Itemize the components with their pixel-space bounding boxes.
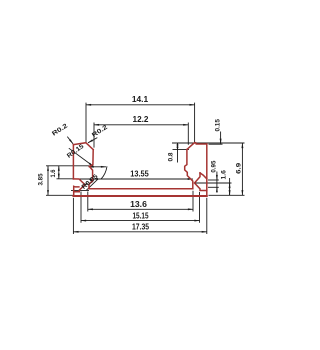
- svg-text:13.6: 13.6: [130, 200, 148, 209]
- extension 12.2 right: [187, 123, 189, 145]
- dimension texts: [130, 95, 149, 232]
- dim 3.85 line: [47, 166, 49, 196]
- extension 15.15 left: [80, 192, 82, 223]
- extension 13.6 right: [192, 191, 194, 212]
- leader R0.05 main: [86, 179, 98, 191]
- extension 17.35 left: [72, 198, 74, 234]
- extension left bottom: [46, 194, 73, 196]
- wire right outer wall: [206, 144, 208, 196]
- wire left inner wall with notch: [89, 150, 93, 189]
- dim 0.8 arrows: [177, 143, 179, 147]
- dim 13.55 line: [73, 178, 192, 180]
- wire right internal barb slot: [195, 173, 207, 191]
- dim 14.1 line: [86, 104, 195, 106]
- leader R0.2 left: [67, 137, 73, 144]
- extension bottom right shared: [209, 194, 245, 196]
- leader double arrow line: [89, 166, 106, 168]
- leader R0.05 arrow 2: [83, 184, 87, 187]
- dim 13.55 left arrow: [93, 178, 96, 180]
- svg-text:12.2: 12.2: [133, 115, 150, 124]
- profile outline: [73, 143, 206, 196]
- svg-text:0.15: 0.15: [215, 119, 222, 132]
- leader R0.15: [69, 148, 94, 166]
- svg-text:R0.15: R0.15: [66, 143, 86, 160]
- svg-text:6.9: 6.9: [235, 162, 242, 174]
- leader R0.2 right: [88, 138, 97, 143]
- wire right inner wall with notch: [185, 150, 193, 189]
- extension 13.6 left: [87, 192, 89, 212]
- dim 13.6 line: [88, 208, 193, 210]
- misc short line bottom left: [71, 189, 89, 191]
- wire top-left lip: [73, 143, 93, 150]
- dim 1.6 right line: [229, 178, 231, 195]
- extension 1.6 right top: [196, 182, 232, 184]
- svg-text:3.85: 3.85: [38, 173, 45, 185]
- extension 0.95 bottom: [208, 186, 219, 188]
- wire right slot top connection: [200, 173, 207, 179]
- svg-text:15.15: 15.15: [133, 212, 150, 221]
- svg-text:1.6: 1.6: [221, 170, 228, 180]
- extension 0.95 top: [208, 179, 219, 181]
- wire right lip with ridge: [187, 143, 207, 150]
- svg-text:R0.2: R0.2: [91, 124, 110, 139]
- dim 0.15 line: [220, 132, 222, 144]
- dim 1.6 left line: [58, 166, 60, 179]
- wire left slot hook: [74, 186, 79, 196]
- extension 12.2 left: [93, 123, 95, 148]
- extension left top: [46, 165, 89, 167]
- dim 6.9 line: [241, 143, 243, 195]
- extension 14.1 right: [194, 103, 196, 144]
- wire bottom edge of flange: [73, 195, 206, 197]
- dim 15.15 line: [81, 220, 200, 222]
- dim 0.95 line: [216, 172, 218, 191]
- extension 14.1 left: [85, 103, 87, 143]
- dim 17.35 line: [73, 231, 206, 233]
- extension 15.15 right: [199, 192, 201, 223]
- svg-text:0.8: 0.8: [168, 152, 175, 161]
- svg-text:0.95: 0.95: [211, 160, 218, 172]
- extension 0.8 bottom: [173, 148, 190, 150]
- extension 0.15 bottom: [209, 143, 223, 145]
- extension left mid: [57, 178, 74, 180]
- dim 12.2 line: [94, 124, 188, 126]
- wire left lower jog and slot: [73, 179, 85, 192]
- svg-text:13.55: 13.55: [130, 169, 149, 178]
- svg-text:14.1: 14.1: [132, 95, 149, 104]
- leader arc detail: [101, 166, 107, 179]
- leader R0.05 arrow 1: [89, 179, 92, 182]
- dim 0.8 line tail: [177, 143, 179, 163]
- svg-text:17.35: 17.35: [132, 223, 150, 232]
- svg-text:R0.2: R0.2: [51, 122, 70, 137]
- svg-text:1.6: 1.6: [50, 169, 57, 177]
- extension 17.35 right: [206, 198, 208, 234]
- wire left outer wall: [72, 145, 74, 179]
- wire channel inner bottom: [89, 188, 193, 190]
- extension top shared: [172, 142, 245, 144]
